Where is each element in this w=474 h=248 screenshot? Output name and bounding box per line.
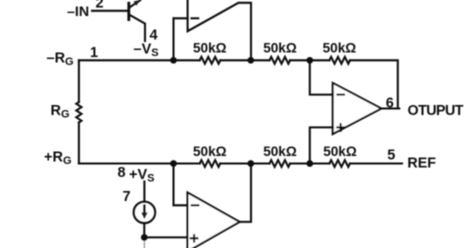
svg-text:REF: REF xyxy=(407,156,436,172)
svg-text:50kΩ: 50kΩ xyxy=(263,144,297,159)
svg-text:OTUPUT: OTUPUT xyxy=(408,103,464,119)
svg-text:50kΩ: 50kΩ xyxy=(323,144,357,159)
svg-text:7: 7 xyxy=(123,189,131,205)
svg-text:5: 5 xyxy=(387,147,395,163)
svg-text:–IN: –IN xyxy=(67,4,89,20)
svg-text:+VS: +VS xyxy=(129,167,154,185)
svg-text:50kΩ: 50kΩ xyxy=(193,40,227,55)
svg-text:6: 6 xyxy=(386,96,394,112)
svg-text:50kΩ: 50kΩ xyxy=(323,40,357,55)
svg-text:2: 2 xyxy=(96,0,104,12)
svg-text:4: 4 xyxy=(150,28,158,44)
svg-text:–RG: –RG xyxy=(47,51,74,69)
svg-text:+RG: +RG xyxy=(44,150,72,168)
svg-text:8: 8 xyxy=(118,165,126,181)
svg-text:50kΩ: 50kΩ xyxy=(193,144,227,159)
svg-text:1: 1 xyxy=(90,45,98,61)
svg-text:–VS: –VS xyxy=(134,42,159,60)
svg-text:RG: RG xyxy=(51,103,70,121)
svg-text:50kΩ: 50kΩ xyxy=(263,40,297,55)
